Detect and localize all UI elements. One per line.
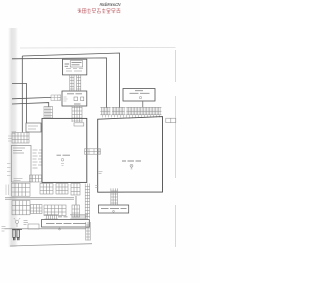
scan gutter shading band bbox=[8, 28, 18, 247]
connector grid lower row 1 bbox=[12, 201, 30, 215]
pin ticks on chassis left edge bbox=[7, 164, 11, 176]
headphone jack J1 bbox=[12, 229, 22, 240]
connector stub above left IC bbox=[44, 107, 53, 119]
servo control box bbox=[98, 205, 128, 213]
label above logic box bbox=[58, 216, 68, 218]
pin strip above logic box left bbox=[45, 215, 59, 219]
amplifier IC box bbox=[123, 89, 155, 102]
svg-text:RadioFans.CN: RadioFans.CN bbox=[100, 2, 122, 7]
connector ladder right of logic box bbox=[86, 222, 90, 241]
pin labels left of mechanism bbox=[59, 95, 62, 100]
connector band CN row bbox=[100, 107, 161, 117]
labels inside chassis top bbox=[13, 148, 25, 153]
wire left vertical bbox=[21, 56, 23, 133]
switch S1 mode selector box bbox=[63, 59, 87, 75]
wire lower bus second bbox=[5, 199, 74, 201]
left IC main box bbox=[42, 118, 87, 182]
pin marks at right IC bottom corner bbox=[95, 186, 98, 188]
connector block left column bbox=[12, 133, 29, 144]
connector grid below IC right bbox=[71, 184, 80, 196]
connector ladder below left IC box bbox=[85, 184, 89, 219]
label above chassis bottom bbox=[14, 179, 23, 181]
resistor network bridging the two ICs bbox=[85, 149, 101, 154]
wire to mech block bbox=[12, 97, 51, 98]
connector tail box bbox=[74, 123, 84, 126]
connector grid lower row 2 bbox=[44, 205, 66, 216]
pin strip above logic box right bbox=[70, 215, 88, 219]
amplifier pin stub bbox=[142, 102, 144, 108]
cassette mechanism box bbox=[62, 91, 87, 106]
solenoid symbol right bbox=[81, 97, 84, 101]
wire jack line bbox=[5, 228, 87, 230]
component on right edge of right IC bbox=[166, 118, 176, 122]
wire bus B bbox=[12, 58, 107, 108]
connector ladder below mechanism bbox=[72, 106, 82, 122]
wire to motor bbox=[12, 84, 27, 124]
small box on jack wire bbox=[28, 224, 39, 229]
logic and motor control box bbox=[42, 220, 90, 231]
LED indicator symbol bottom-left bbox=[14, 218, 28, 227]
title text chinese (vector glyph strokes) bbox=[78, 8, 121, 13]
board frame top edge bbox=[20, 47, 176, 50]
wire connector link bbox=[75, 196, 77, 205]
connector grid bottom-left wide bbox=[6, 183, 30, 196]
resistor row labels between chassis and IC bbox=[33, 150, 42, 168]
connector grid below IC middle bbox=[56, 184, 68, 195]
wire bus A bbox=[22, 53, 119, 108]
solenoid symbol left bbox=[74, 97, 78, 101]
connector CN ladder between switch and mechanism bbox=[70, 75, 81, 91]
terminal marks at jack wire start bbox=[2, 227, 6, 232]
connector grid lower row 3 bbox=[72, 205, 80, 217]
relay block left of mechanism bbox=[51, 95, 61, 101]
right IC main box bbox=[98, 117, 163, 193]
deck chassis tall box bbox=[11, 146, 31, 183]
board frame right edge bbox=[175, 50, 177, 247]
pin stub on right IC left edge bbox=[99, 172, 103, 174]
connector grid below IC left bbox=[40, 184, 53, 195]
small marks bottom-left of gutter bbox=[12, 132, 17, 134]
board frame bottom edge bbox=[10, 244, 92, 246]
connector ladder through right IC bottom bbox=[111, 188, 118, 204]
motor box M1 bbox=[26, 123, 41, 132]
connector grid right of chassis bbox=[30, 175, 42, 182]
wire to connector L1 bbox=[12, 103, 49, 107]
pin text left of connector bbox=[8, 136, 12, 141]
connector grid lower row 1b bbox=[31, 205, 43, 214]
wire lower bus double bbox=[5, 197, 74, 199]
